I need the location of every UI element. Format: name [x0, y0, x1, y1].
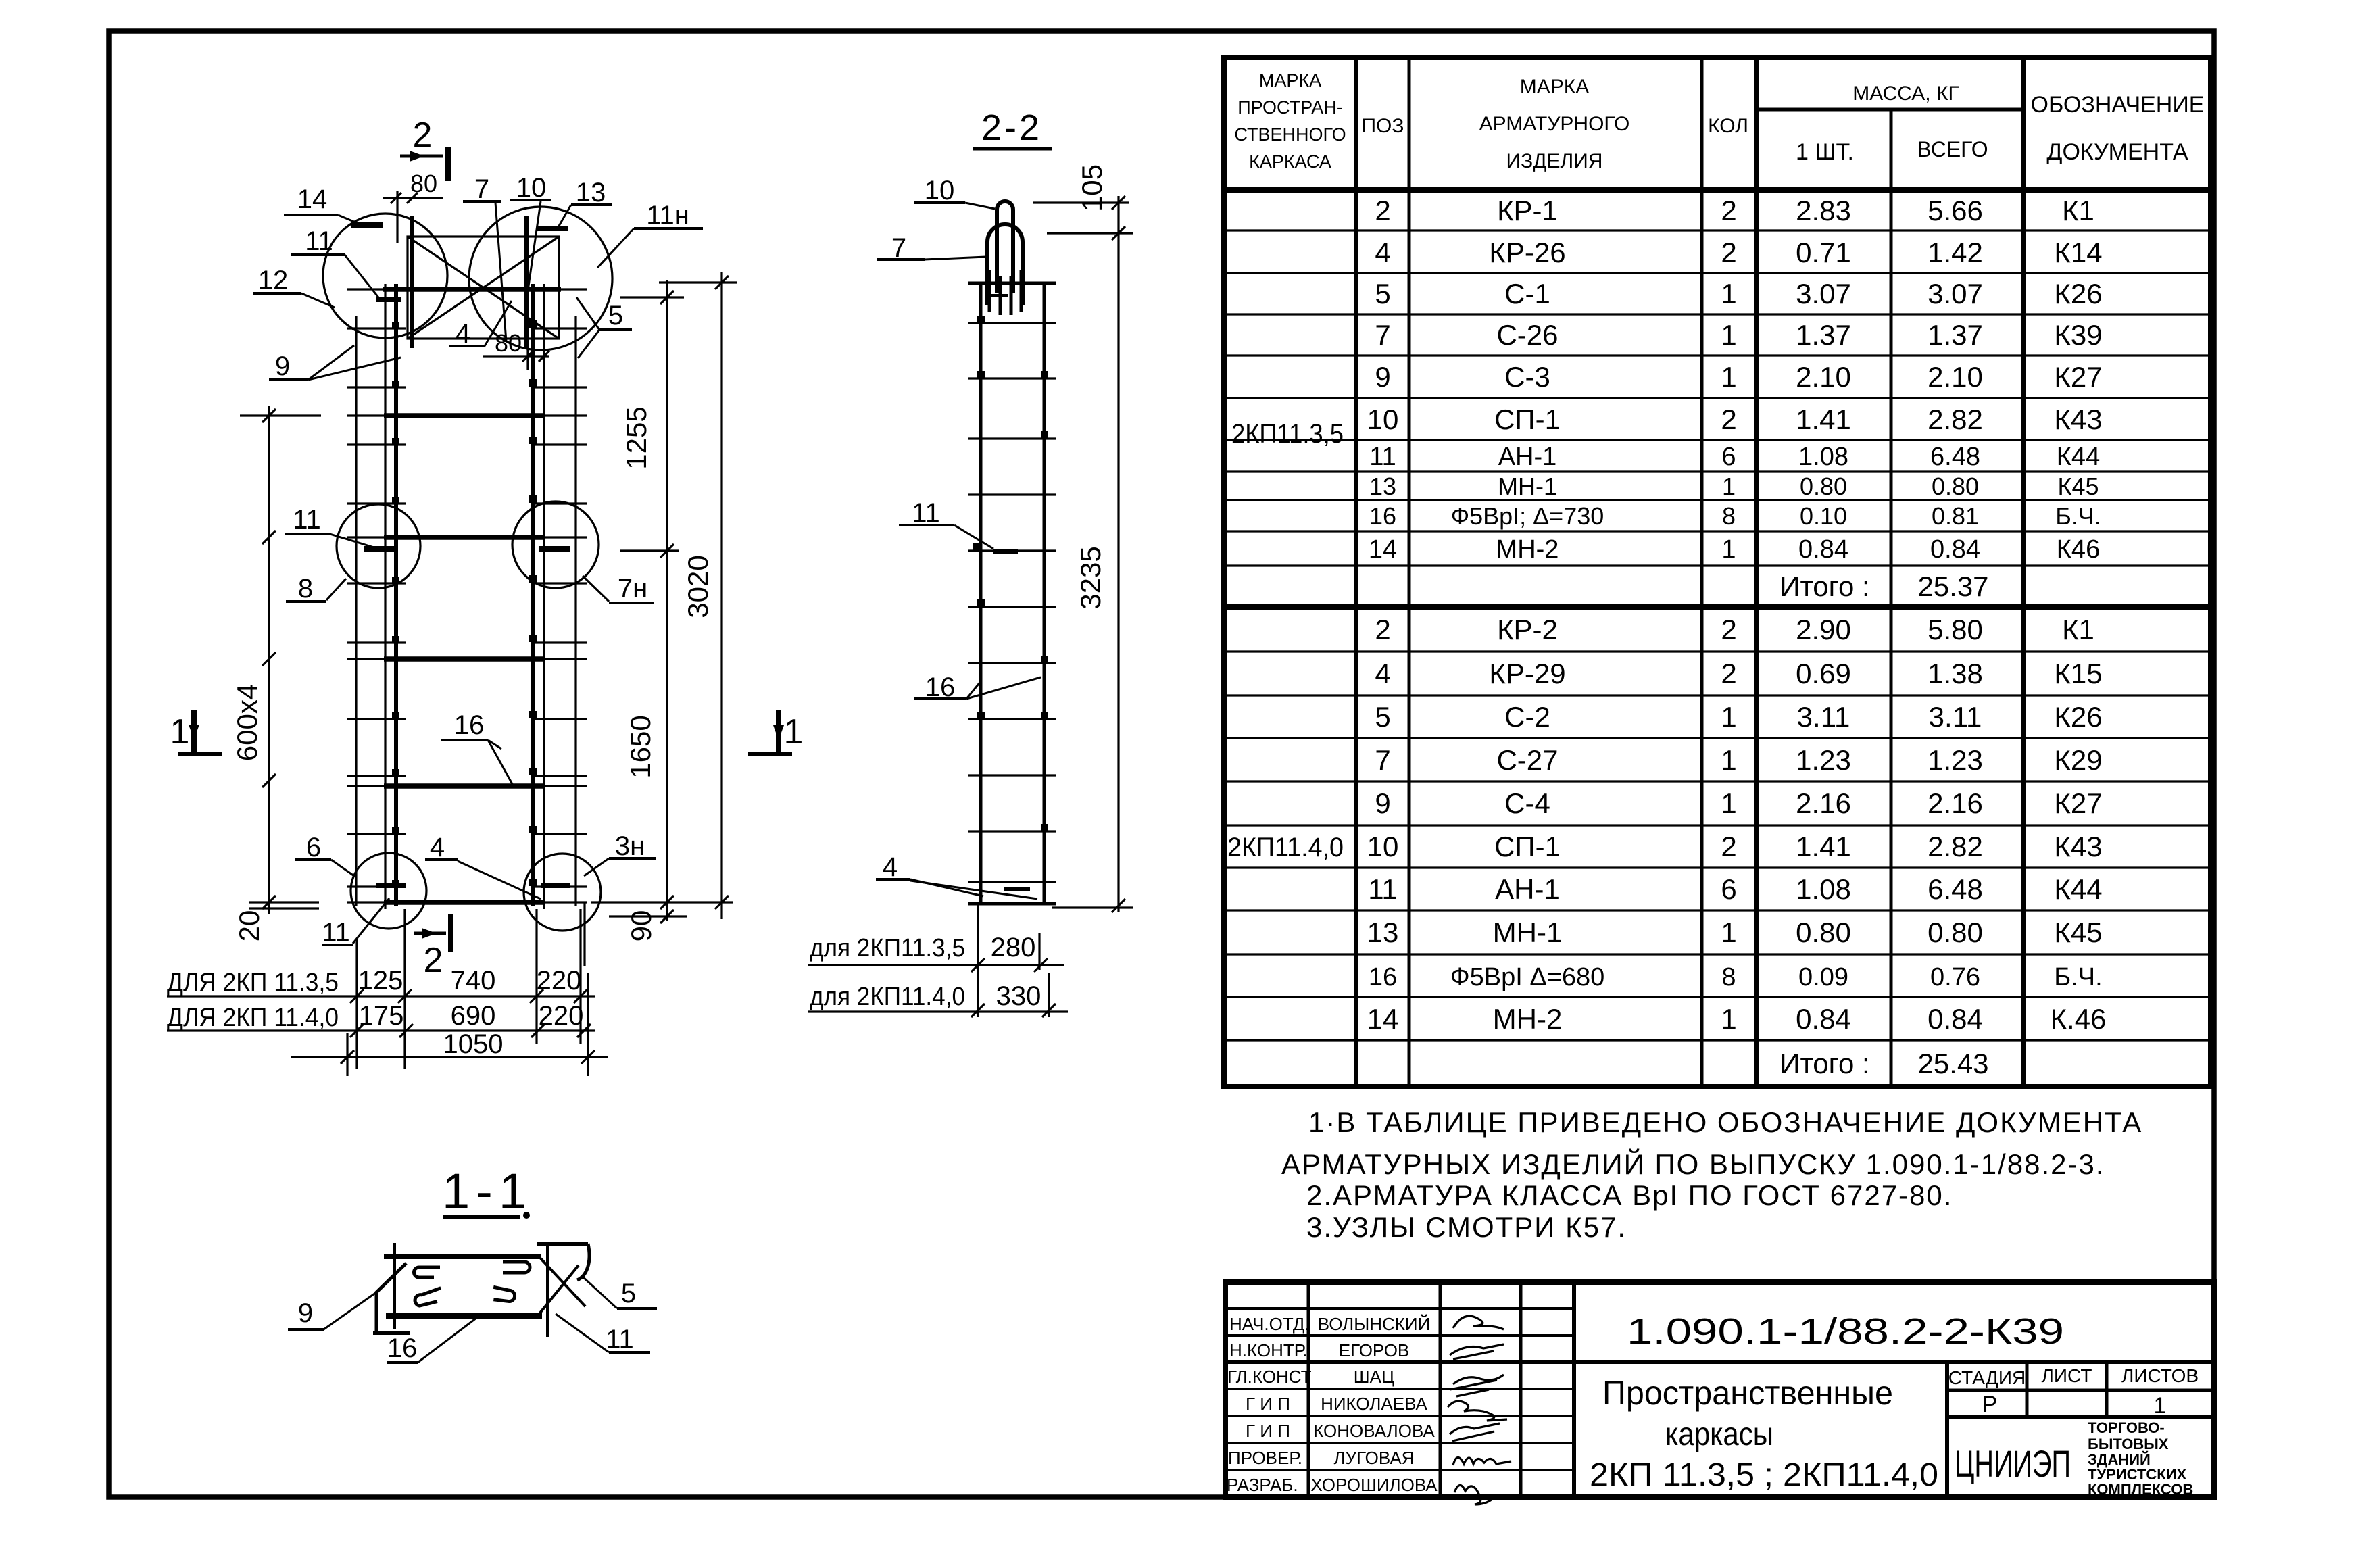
svg-text:6: 6 [1721, 443, 1736, 471]
front bottom dim: line 3 [291, 1056, 608, 1058]
svg-text:10: 10 [925, 176, 955, 205]
callout label 6 [295, 833, 354, 876]
parts table: header column 3 [1479, 76, 1630, 172]
svg-text:АРМАТУРНЫХ ИЗДЕЛИЙ ПО ВЫПУСКУ: АРМАТУРНЫХ ИЗДЕЛИЙ ПО ВЫПУСКУ 1.090.1-1/… [1281, 1148, 2105, 1180]
title block: outer frame [1225, 1282, 2214, 1497]
parts table: data row 5 С-2 [1375, 701, 2102, 733]
svg-text:ДЛЯ 2КП 11.4,0: ДЛЯ 2КП 11.4,0 [167, 1004, 339, 1032]
svg-text:для 2КП11.4,0: для 2КП11.4,0 [810, 983, 965, 1011]
section 1-1: right angle top (pos 5) [537, 1242, 588, 1246]
svg-text:АН-1: АН-1 [1498, 443, 1557, 471]
section 2-2: anchor rods below hook [989, 270, 1021, 315]
dimension line 600x4 vertical [268, 406, 270, 914]
callout label 7н [583, 574, 654, 604]
svg-text:Итого :: Итого : [1780, 570, 1869, 602]
front bottom dim tick 599,1474 [398, 989, 412, 1003]
svg-text:80: 80 [410, 170, 437, 197]
svg-text:0.69: 0.69 [1796, 658, 1851, 689]
front view: cross rod right y=1234 [534, 833, 587, 835]
svg-text:13: 13 [576, 178, 606, 207]
title block: организация small text [2088, 1419, 2193, 1498]
svg-text:1: 1 [1722, 472, 1736, 500]
dimension extension y=1335 left [249, 901, 319, 903]
svg-text:7: 7 [1375, 744, 1390, 776]
dimension tick 600x4 at 1335 [262, 896, 276, 909]
svg-text:МАРКА: МАРКА [1520, 76, 1590, 98]
front bottom dim tick 514,1564 [341, 1050, 354, 1064]
front view: cross rod left y=1312 [347, 885, 406, 887]
svg-text:0.80: 0.80 [1796, 916, 1851, 948]
svg-text:2: 2 [1375, 195, 1390, 226]
svg-text:ДОКУМЕНТА: ДОКУМЕНТА [2046, 139, 2188, 165]
svg-text:1·В ТАБЛИЦЕ ПРИВЕДЕНО ОБОЗНАЧЕ: 1·В ТАБЛИЦЕ ПРИВЕДЕНО ОБОЗНАЧЕНИЕ ДОКУМЕ… [1308, 1106, 2142, 1138]
dimension tick at 987,1335 [660, 896, 674, 909]
title block: role labels [1227, 1314, 1312, 1495]
svg-text:1: 1 [1721, 744, 1736, 776]
svg-text:105: 105 [1076, 164, 1108, 212]
front view: right longitudinal rod (pos 5) [574, 316, 576, 906]
callout label 8 [286, 574, 346, 604]
callout label 9 [269, 345, 401, 381]
svg-text:1.41: 1.41 [1796, 831, 1851, 862]
svg-text:3.07: 3.07 [1928, 278, 1983, 310]
front view: welded cross bar y=428 [383, 287, 561, 292]
svg-text:2.82: 2.82 [1928, 403, 1983, 435]
parts table: row line y=1412 [1224, 953, 2211, 955]
svg-text:2КП 11.3,5 ; 2КП11.4,0: 2КП 11.3,5 ; 2КП11.4,0 [1590, 1457, 1938, 1493]
section 2-2: cross rod y=560 [968, 377, 1056, 379]
callout label 11 [285, 505, 378, 549]
svg-text:Итого :: Итого : [1780, 1048, 1869, 1079]
parts table: row line y=526 [1224, 354, 2211, 356]
svg-text:2.82: 2.82 [1928, 831, 1983, 862]
svg-text:0.84: 0.84 [1798, 535, 1848, 564]
anchor extension right x=865 [583, 902, 585, 966]
svg-text:СП-1: СП-1 [1494, 403, 1561, 435]
section 2-2: hook tie dash [989, 294, 1008, 297]
section 1-1: title underline dot [523, 1212, 530, 1219]
front view: detail circle mid left [337, 504, 420, 588]
front bottom dim tick 859,1474 [574, 989, 587, 1003]
section mark 1 right: arrow head [773, 725, 784, 740]
parts table: data row 9 С-3 [1375, 361, 2102, 393]
callout label 16 [914, 672, 1041, 702]
svg-text:0.81: 0.81 [1932, 502, 1979, 530]
callout label 9 [288, 1292, 376, 1329]
front bottom dim tick 601,1525 [399, 1024, 413, 1037]
svg-text:3020: 3020 [682, 555, 714, 618]
parts table: row line y=341 [1224, 229, 2211, 231]
parts table: row line y=404 [1224, 272, 2211, 274]
svg-text:4: 4 [1375, 658, 1390, 689]
section 2-2: cross rod y=1064 [968, 718, 1056, 720]
front view: cross rod left y=1064 [347, 718, 406, 720]
svg-text:ЛИСТОВ: ЛИСТОВ [2121, 1365, 2199, 1386]
section 1-1: bottom plate [386, 1313, 542, 1319]
front view: detail circle bottom left [351, 853, 426, 929]
svg-text:2: 2 [1721, 195, 1736, 226]
svg-text:ДЛЯ 2КП 11.3,5: ДЛЯ 2КП 11.3,5 [167, 969, 339, 997]
section 2-2 dim tick 1655,345 [1112, 226, 1125, 240]
svg-text:13: 13 [1367, 916, 1399, 948]
front view: right rail thick flat bar [531, 284, 535, 906]
section 1-1: staple upper right (pos 16) [503, 1262, 530, 1273]
front bottom dim: line 1 [167, 995, 595, 997]
section 2-2: title underline [973, 147, 1052, 151]
section 2-2: dim extension y=300 [1033, 201, 1129, 203]
front view: cross bar rung extension left y=1163 [347, 785, 385, 787]
front view: left rail thick flat bar [394, 284, 398, 906]
parts table: масса,кг sub-header line [1757, 108, 2023, 112]
callout label 10 (front view top) [510, 173, 551, 310]
section 2-2: lifting loop outer (pos 7) [987, 224, 1023, 305]
callout label 10 [914, 176, 995, 209]
section mark 2 bottom: arrow head [422, 928, 437, 939]
svg-text:К43: К43 [2054, 831, 2102, 862]
svg-text:1: 1 [170, 712, 190, 752]
dimension tick at 987,440 [660, 291, 674, 304]
parts table: data row 2 КР-2 [1375, 614, 2094, 645]
svg-text:3.07: 3.07 [1796, 278, 1851, 310]
svg-text:С-3: С-3 [1504, 361, 1550, 393]
dimension tick at 987,815 [660, 544, 674, 558]
svg-text:КР-26: КР-26 [1489, 237, 1565, 268]
dimension extension mid y=812 [620, 549, 679, 552]
svg-text:АРМАТУРНОГО: АРМАТУРНОГО [1479, 113, 1630, 135]
front view: cross bar rung extension left y=975 [347, 658, 385, 660]
section 1-1: staple upper left (pos 16) [414, 1267, 440, 1277]
front view: welded cross bar y=975 [384, 656, 545, 662]
svg-text:ЛУГОВАЯ: ЛУГОВАЯ [1333, 1448, 1414, 1468]
svg-text:14: 14 [1367, 1003, 1399, 1035]
svg-text:НИКОЛАЕВА: НИКОЛАЕВА [1321, 1394, 1427, 1414]
svg-text:КР-2: КР-2 [1497, 614, 1558, 645]
svg-text:К.46: К.46 [2051, 1003, 2107, 1035]
svg-text:80: 80 [495, 329, 522, 357]
svg-text:3.УЗЛЫ СМОТРИ К57.: 3.УЗЛЫ СМОТРИ К57. [1306, 1211, 1627, 1243]
callout label 4 [876, 852, 1037, 899]
front view: cross rod left y=1234 [347, 833, 406, 835]
svg-text:330: 330 [996, 981, 1041, 1011]
svg-text:13: 13 [1369, 472, 1396, 500]
section 1-1: left flange plate (pos 9) [376, 1263, 406, 1331]
svg-text:4: 4 [883, 852, 898, 882]
dimension tick 600x4 at 1155 [262, 774, 276, 787]
svg-text:ЦНИИЭП: ЦНИИЭП [1955, 1442, 2071, 1485]
svg-text:К1: К1 [2062, 195, 2094, 226]
parts table: row line y=786 [1224, 530, 2211, 532]
parts table: data row 13 МН-1 [1369, 472, 2099, 500]
section 2-2 dim tick 1655,1340 [1112, 899, 1125, 912]
front view: cross rod left y=863 [347, 582, 406, 584]
front view: detail circle top left [323, 214, 447, 338]
dimension extension bottom y=1335 [591, 901, 733, 903]
svg-text:2-2: 2-2 [981, 107, 1042, 148]
front view: top anchor plate left (pos 14) [410, 216, 414, 348]
parts table: column line col6/col7 [2021, 57, 2026, 1087]
section mark 1 left: arrow head [189, 725, 199, 739]
section 2-2 dim tick 1655,300 [1112, 196, 1125, 210]
front bottom dim tick 796,1525 [531, 1024, 545, 1037]
section 2-2: bottom dim extension x=1447 [977, 904, 979, 1017]
svg-text:0.71: 0.71 [1796, 237, 1851, 268]
svg-text:1: 1 [1721, 1003, 1736, 1035]
svg-text:1.42: 1.42 [1928, 237, 1983, 268]
front view: cross rod right y=658 [534, 443, 587, 445]
parts table: row line y=1539 [1224, 1039, 2211, 1041]
svg-text:2.16: 2.16 [1928, 787, 1983, 819]
svg-text:11: 11 [322, 918, 350, 948]
svg-text:Ф5ВрI; Δ=730: Ф5ВрI; Δ=730 [1451, 502, 1604, 530]
svg-text:С-26: С-26 [1496, 319, 1558, 351]
title block: staff names [1310, 1314, 1438, 1495]
svg-text:10: 10 [1367, 403, 1399, 435]
front view: cross bar rung extension left y=1335 [347, 901, 385, 903]
svg-text:ГЛ.КОНСТ: ГЛ.КОНСТ [1227, 1367, 1312, 1387]
callout label 5 [576, 297, 632, 358]
svg-text:11: 11 [305, 226, 333, 256]
svg-text:1: 1 [1721, 535, 1736, 564]
svg-text:2.83: 2.83 [1796, 195, 1851, 226]
front bottom dim tick 528,1474 [350, 989, 364, 1003]
svg-text:690: 690 [451, 1001, 496, 1031]
parts table: data row 7 С-27 [1375, 744, 2102, 776]
svg-text:6: 6 [1721, 873, 1736, 905]
svg-text:0.84: 0.84 [1930, 535, 1980, 564]
svg-text:2.10: 2.10 [1796, 361, 1851, 393]
svg-text:1: 1 [784, 712, 804, 752]
svg-text:11: 11 [912, 498, 940, 528]
svg-text:РАЗРАБ.: РАЗРАБ. [1227, 1475, 1298, 1495]
parts table: row line y=698 [1224, 470, 2211, 472]
svg-text:0.80: 0.80 [1800, 472, 1847, 500]
section mark 2 top: arrow head [410, 151, 424, 162]
svg-text:К26: К26 [2054, 278, 2102, 310]
parts table: row line y=1221 [1224, 824, 2211, 826]
svg-text:Б.Ч.: Б.Ч. [2055, 502, 2101, 530]
callout label 3н [584, 831, 656, 876]
front view: top panel diagonal 2 [408, 237, 559, 339]
svg-text:6: 6 [306, 833, 321, 862]
svg-text:5: 5 [1375, 701, 1390, 733]
parts table: column line col3/col4 [1700, 57, 1704, 1087]
front bottom dim: extension x=794 [535, 909, 537, 1044]
parts table: header texts column 1 [1234, 70, 1346, 172]
svg-text:1.08: 1.08 [1796, 873, 1851, 905]
svg-text:КАРКАСА: КАРКАСА [1249, 151, 1331, 172]
section 1-1: staple lower left (pos 16) [414, 1288, 444, 1307]
front bottom dim: extension x=514 [346, 1033, 348, 1076]
front view: detail circle top right [469, 207, 612, 350]
section 2-2 bottom dim tick 1538,1423 [1034, 958, 1048, 972]
front bottom dim: values row 2 [359, 1001, 584, 1031]
section 2-2: bottom dim extension x=1538 [1038, 933, 1040, 970]
front view: welded cross bar y=1335 [384, 900, 545, 905]
svg-text:СТАДИЯ: СТАДИЯ [1948, 1367, 2026, 1388]
front view: bottom anchor dash left [376, 883, 406, 888]
svg-text:16: 16 [1369, 963, 1397, 991]
svg-text:0.84: 0.84 [1928, 1003, 1983, 1035]
parts table: row line y=1156 [1224, 780, 2211, 782]
front view: cross rod left y=951 [347, 641, 406, 643]
parts table: data row 11 АН-1 [1369, 443, 2100, 471]
front view: detail circle mid right [512, 501, 599, 588]
parts table: header bottom line [1224, 187, 2211, 193]
svg-text:8: 8 [1722, 502, 1736, 530]
section 2-2: weld dots [973, 316, 1048, 831]
parts table: row line y=1347 [1224, 909, 2211, 911]
svg-text:11н: 11н [646, 201, 689, 230]
section mark 2 bottom: arrow line [414, 932, 446, 935]
section mark 1 right: base line [748, 752, 792, 756]
svg-text:К27: К27 [2054, 787, 2102, 819]
front view: top anchor dash right [537, 226, 568, 231]
svg-text:НАЧ.ОТД.: НАЧ.ОТД. [1229, 1314, 1310, 1334]
svg-text:КР-1: КР-1 [1497, 195, 1558, 226]
svg-text:ЛИСТ: ЛИСТ [2042, 1365, 2092, 1386]
svg-text:16: 16 [387, 1333, 418, 1363]
svg-text:С-1: С-1 [1504, 278, 1550, 310]
svg-text:Ф5ВрI Δ=680: Ф5ВрI Δ=680 [1450, 963, 1605, 991]
svg-text:3.11: 3.11 [1929, 701, 1982, 733]
dimension extension top y=440 for 1255 [620, 296, 684, 298]
dimension 80 right: tick 1 [522, 351, 533, 362]
front bottom dim tick 794,1474 [530, 989, 543, 1003]
svg-text:16: 16 [1369, 502, 1396, 530]
callout label 12 [253, 266, 335, 308]
callout label 4 [449, 301, 512, 349]
svg-text:К39: К39 [2054, 319, 2102, 351]
svg-text:5: 5 [1375, 278, 1390, 310]
callout label 7 (front view top) [463, 174, 506, 341]
front view: mid anchor dash right (pos 11) [539, 546, 570, 552]
section mark 1 right: section bar [776, 710, 781, 754]
svg-text:2.АРМАТУРА КЛАССА ВрI ПО ГОСТ: 2.АРМАТУРА КЛАССА ВрI ПО ГОСТ 6727-80. [1306, 1179, 1953, 1211]
callout label 11 [291, 226, 378, 297]
svg-text:0.09: 0.09 [1798, 963, 1848, 991]
front view: cross rod right y=1148 [534, 775, 587, 777]
svg-text:11: 11 [293, 505, 321, 535]
svg-text:Г И П: Г И П [1246, 1394, 1290, 1414]
svg-text:25.37: 25.37 [1917, 570, 1988, 602]
parts table: data row 4 КР-29 [1375, 658, 2102, 689]
svg-text:1255: 1255 [620, 406, 652, 469]
front view: cross bar rung extension left y=615 [347, 414, 385, 416]
dimension tick at 1068,1335 [715, 896, 729, 909]
svg-text:7: 7 [474, 174, 489, 204]
parts table: data row 16 Ф5ВрI; Δ=730 [1369, 502, 2101, 530]
dimension tick 600x4 at 795 [262, 531, 276, 544]
callout label 16 [387, 1318, 476, 1363]
svg-text:1: 1 [2154, 1393, 2167, 1419]
svg-text:1.37: 1.37 [1928, 319, 1983, 351]
front view: top anchor dash left [351, 222, 383, 228]
svg-text:1050: 1050 [443, 1029, 504, 1059]
svg-text:СТВЕННОГО: СТВЕННОГО [1234, 124, 1346, 145]
front view: cross rod right y=745 [534, 502, 587, 504]
svg-text:5: 5 [608, 301, 623, 330]
svg-text:1.090.1-1/88.2-2-К39: 1.090.1-1/88.2-2-К39 [1627, 1311, 2064, 1352]
parts table: column line col1/col2 [1354, 57, 1358, 1087]
section 2-2: cross rod y=1337 [968, 902, 1056, 906]
svg-text:МН-2: МН-2 [1496, 535, 1559, 564]
front view: left longitudinal rod (pos 5) [355, 316, 357, 906]
section 2-2: cross rod y=649 [968, 437, 1056, 439]
svg-text:8: 8 [298, 574, 313, 604]
svg-text:3235: 3235 [1075, 546, 1106, 609]
title block: signatures scribbles [1448, 1316, 1511, 1504]
svg-text:5: 5 [621, 1279, 636, 1308]
section mark 1 left: section bar [191, 710, 197, 754]
dimension 80 top: tick 1 [391, 193, 401, 203]
svg-text:К27: К27 [2054, 361, 2102, 393]
callout label 11 [899, 498, 993, 549]
callout label 7 [877, 233, 986, 263]
svg-text:каркасы: каркасы [1665, 1417, 1773, 1452]
section 2-2: cross rod y=1230 [968, 830, 1056, 832]
section 1-1: left flange foot [373, 1331, 410, 1335]
svg-text:1: 1 [1721, 319, 1736, 351]
front bottom dim tick 864,1525 [577, 1024, 591, 1037]
section 1-1: left cross tick [393, 1243, 396, 1329]
parts table: outer frame [1224, 57, 2211, 1087]
dimension line 1255/1650 vertical [666, 280, 668, 921]
svg-text:4: 4 [1375, 237, 1390, 268]
svg-text:5.66: 5.66 [1928, 195, 1983, 226]
svg-text:1: 1 [1721, 278, 1736, 310]
section 1-1: right angle curl [577, 1244, 589, 1280]
svg-text:К44: К44 [2054, 873, 2102, 905]
parts table: row line y=589 [1224, 397, 2211, 399]
svg-text:2: 2 [1375, 614, 1390, 645]
svg-text:10: 10 [1367, 831, 1399, 862]
svg-text:175: 175 [359, 1001, 404, 1031]
svg-text:К1: К1 [2062, 614, 2094, 645]
svg-text:К45: К45 [2054, 916, 2102, 948]
dimension 80 top: extension line [396, 191, 398, 243]
front view: cross bar rung extension right y=615 [544, 414, 587, 416]
section 2-2: cross rod y=1147 [968, 774, 1056, 776]
svg-text:9: 9 [1375, 361, 1390, 393]
svg-text:0.84: 0.84 [1796, 1003, 1851, 1035]
svg-text:ЕГОРОВ: ЕГОРОВ [1339, 1340, 1410, 1361]
front view: top panel box (pos 2 plate) [408, 237, 559, 339]
svg-text:Р: Р [1982, 1392, 1998, 1417]
section 2-2: cross rod y=478 [968, 322, 1056, 324]
section 2-2: cross rod y=1305 [968, 881, 1056, 883]
svg-text:740: 740 [451, 966, 496, 996]
svg-text:КОНОВАЛОВА: КОНОВАЛОВА [1313, 1421, 1435, 1441]
svg-text:Пространственные: Пространственные [1602, 1374, 1893, 1412]
svg-text:90: 90 [625, 910, 657, 942]
front bottom dim: extension x=859 [579, 909, 581, 1044]
front view: top anchor plate right (pos 13) [524, 216, 529, 348]
svg-text:6.48: 6.48 [1928, 873, 1983, 905]
section 2-2: bottom dim extension x=1552 [1048, 973, 1050, 1017]
svg-text:ПРОВЕР.: ПРОВЕР. [1228, 1448, 1302, 1468]
svg-text:СП-1: СП-1 [1494, 831, 1561, 862]
svg-text:11: 11 [606, 1325, 634, 1354]
callout label 5 [583, 1277, 657, 1308]
callout label 4 [425, 833, 541, 899]
parts table: data row 4 КР-26 [1375, 237, 2102, 268]
svg-text:ПОЗ: ПОЗ [1361, 115, 1404, 137]
front view: left rail thin line (KP frame) [384, 284, 386, 909]
section 2-2: dimension line 3235 [1117, 196, 1119, 912]
svg-text:ШАЦ: ШАЦ [1354, 1367, 1394, 1387]
svg-text:11: 11 [1368, 873, 1398, 905]
svg-text:16: 16 [454, 710, 485, 740]
